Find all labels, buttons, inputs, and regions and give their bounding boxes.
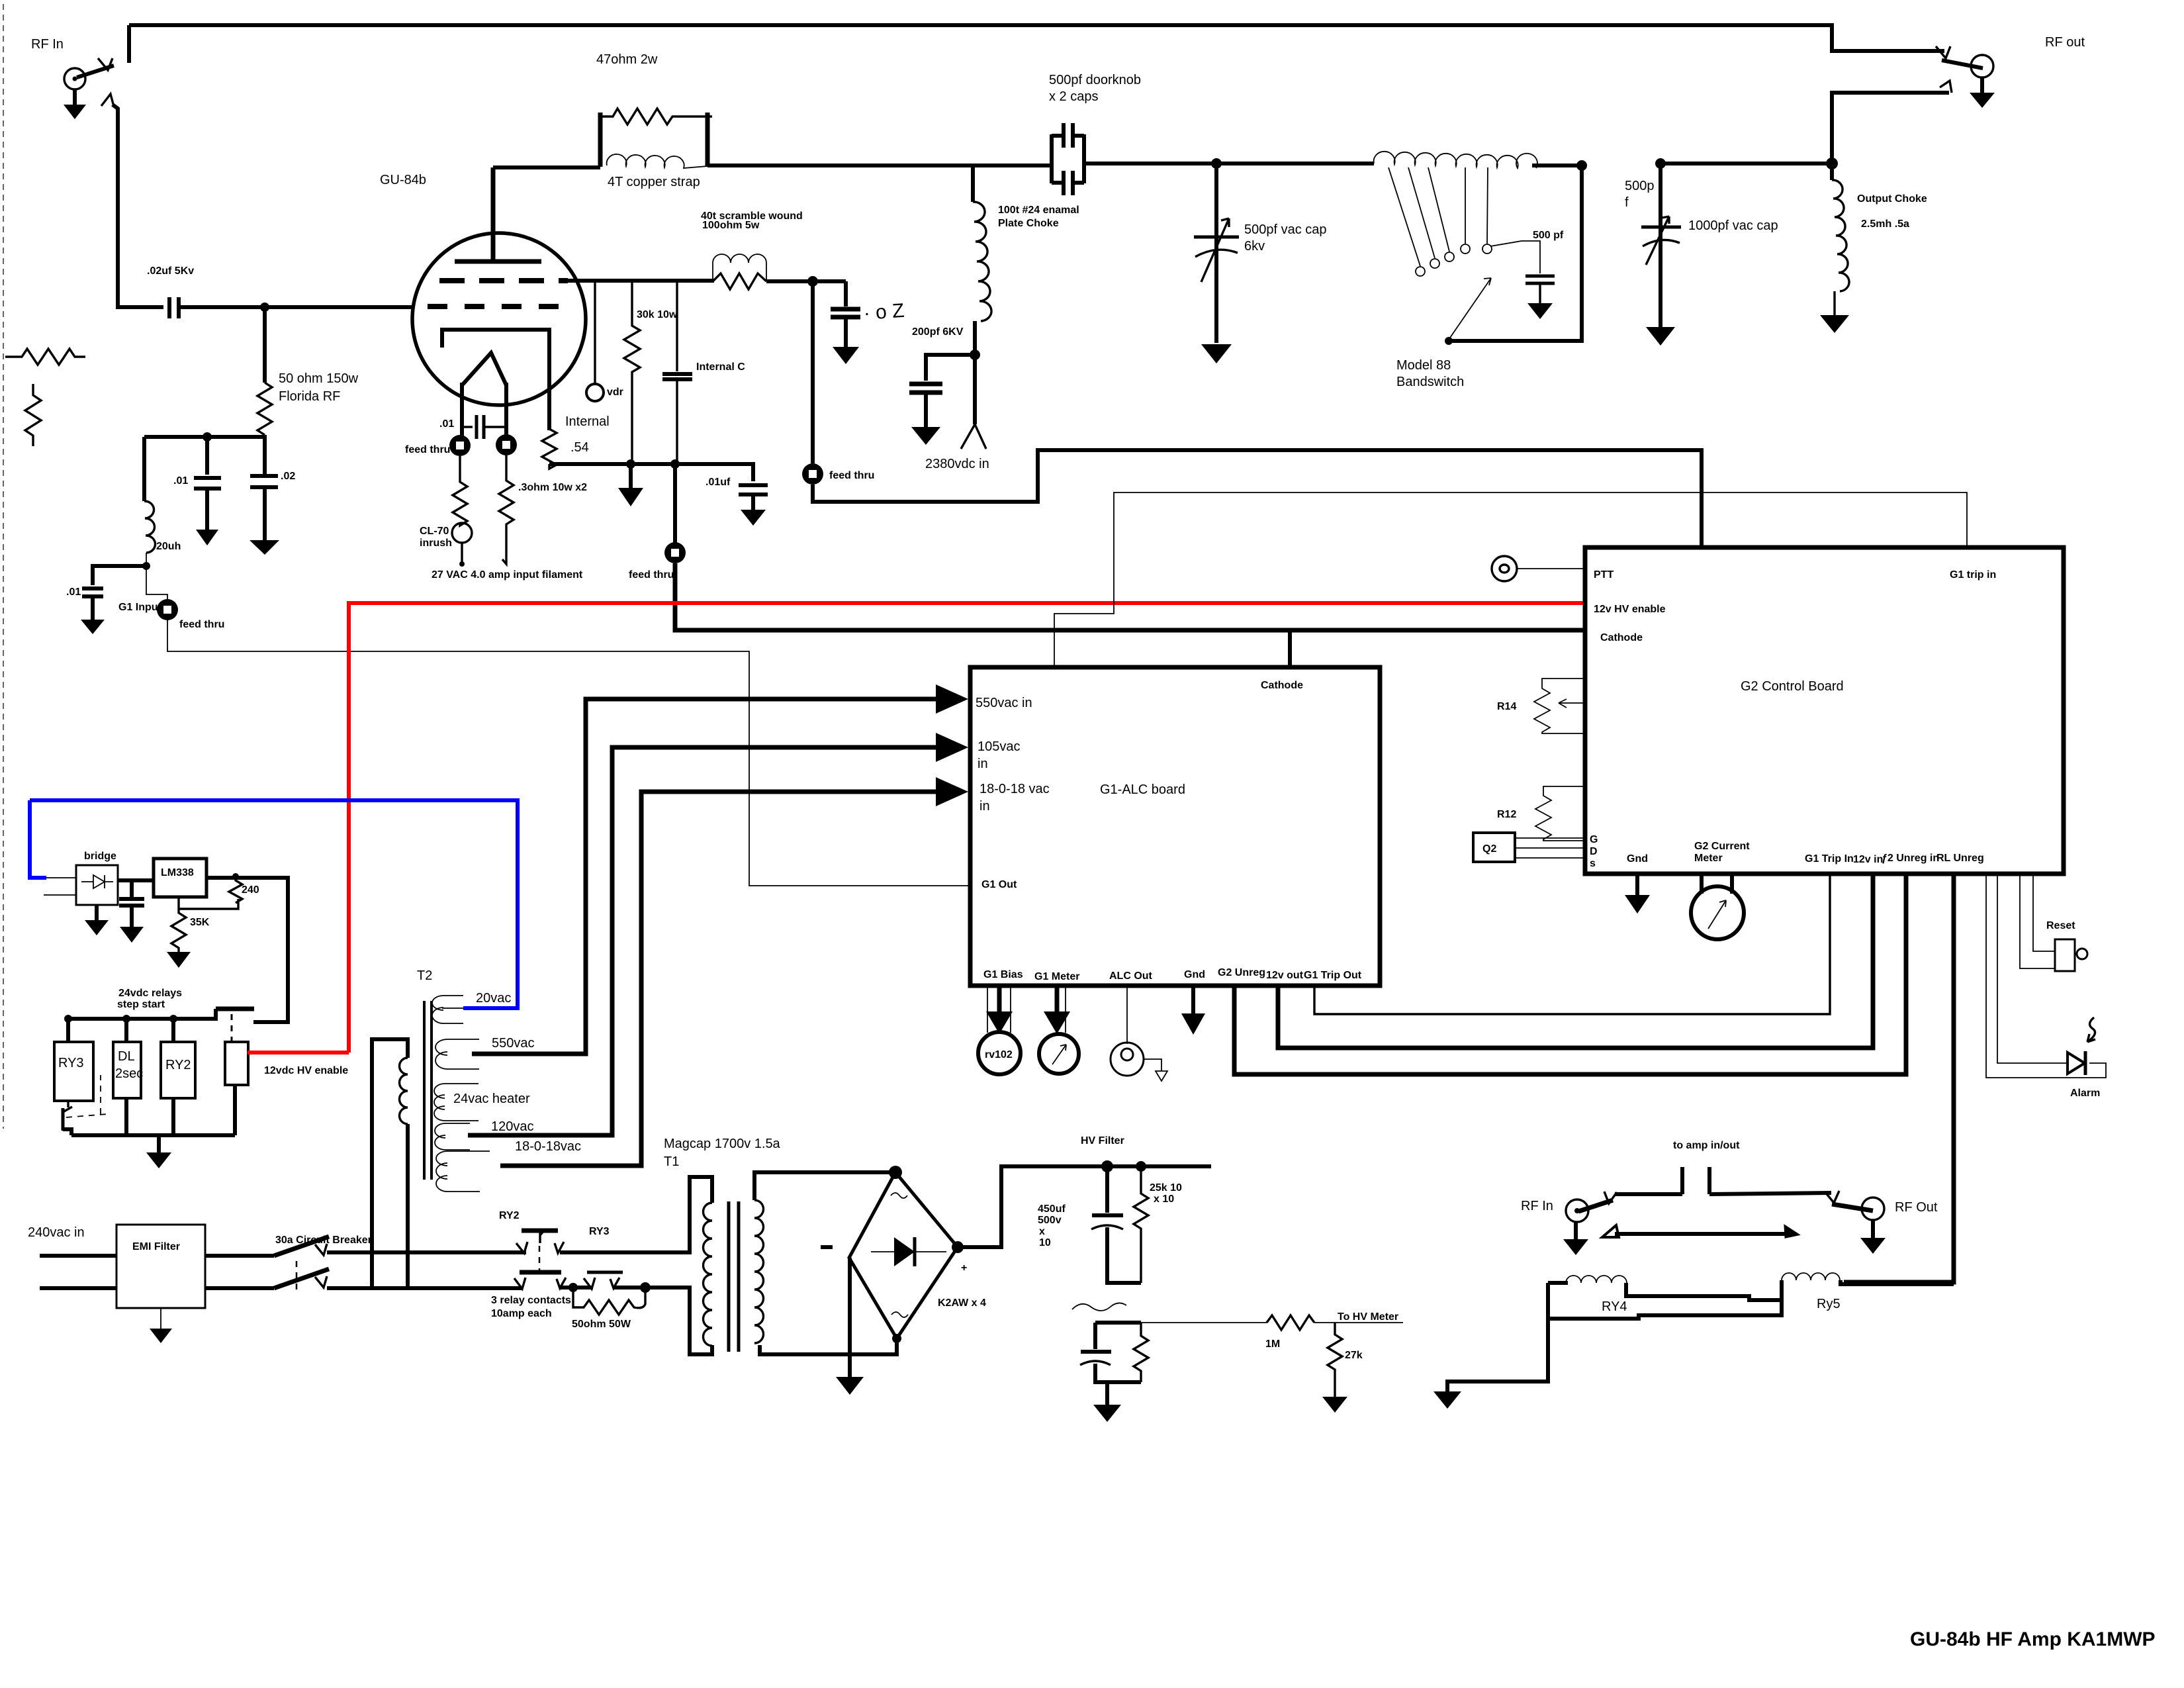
svg-text:PTT: PTT [1594, 569, 1614, 581]
svg-text:T1: T1 [664, 1154, 679, 1169]
wire: second contact down to input cap [113, 105, 163, 307]
wire: doorknob to tank [1084, 162, 1374, 165]
wire: junction down to G1 feed thru [146, 566, 167, 599]
wire: suppressor to .02 node [766, 279, 846, 283]
svg-text:500pf doorknob: 500pf doorknob [1049, 73, 1141, 87]
node bridge right [952, 1241, 964, 1253]
svg-text:.02uf 5Kv: .02uf 5Kv [147, 265, 194, 277]
wire: cap to grid node [179, 305, 414, 309]
wire: junction down to 50 ohm resistor [263, 307, 267, 383]
svg-text:To HV Meter: To HV Meter [1338, 1311, 1398, 1323]
wire 12v HV enable (red) [349, 603, 1585, 1053]
svg-text:12v HV enable: 12v HV enable [1594, 604, 1666, 615]
svg-text:· o Z: · o Z [863, 300, 905, 324]
svg-text:Gnd: Gnd [1627, 853, 1648, 865]
open arrow contact (RF out lower) [1940, 81, 1952, 93]
wire: plate to strap [493, 165, 600, 169]
svg-text:RY4: RY4 [1602, 1299, 1627, 1314]
resistor (spare, vertical) [25, 384, 41, 446]
bridge diode symbol [871, 1251, 946, 1252]
transformer T2 primary [372, 1039, 408, 1288]
breaker gang link [296, 1261, 298, 1292]
svg-text:feed thru: feed thru [629, 569, 674, 581]
wire LM338 out to step start contact [206, 878, 288, 1022]
wire 120vac to ALC 105vac [468, 747, 854, 1135]
svg-text:Bandswitch: Bandswitch [1396, 375, 1464, 389]
inductor 4T copper strap [607, 154, 707, 168]
node 50ohm right [640, 1282, 651, 1293]
transformer T1 primary [690, 1177, 712, 1248]
svg-text:CL-70: CL-70 [420, 526, 449, 537]
page left border dashes [3, 4, 4, 1129]
RF out connector [1971, 55, 1993, 77]
ground HV filter [1105, 1382, 1109, 1405]
wire: screen node down to feed thru [811, 281, 815, 463]
node [142, 562, 150, 570]
svg-text:R12: R12 [1497, 809, 1516, 820]
ground below RF In [73, 89, 77, 105]
svg-text:x 10: x 10 [1154, 1194, 1174, 1205]
wire: second throw line RF out [1832, 93, 1949, 164]
inductor plate choke 100t [971, 165, 975, 202]
transformer T1 secondary [754, 1172, 895, 1200]
svg-text:120vac: 120vac [491, 1119, 534, 1134]
svg-text:30k 10w: 30k 10w [637, 309, 678, 320]
cathode bus [549, 462, 753, 466]
ground arrow cathode bus [629, 464, 633, 488]
svg-text:DL: DL [118, 1049, 135, 1064]
wire: resistor to lower bus [144, 435, 265, 437]
tube GU-84b envelope [412, 233, 586, 405]
svg-text:GU-84b: GU-84b [380, 173, 426, 187]
open arrow at RF out switch top [1936, 46, 1950, 58]
svg-text:500p: 500p [1625, 179, 1655, 193]
svg-text:G1 Input: G1 Input [118, 602, 162, 613]
wire red coil to HV enable (short) [248, 1051, 349, 1055]
svg-text:feed thru: feed thru [405, 444, 450, 455]
node internal C bottom [670, 459, 680, 469]
node 30k bottom [626, 459, 635, 469]
svg-text:100t #24 enamal: 100t #24 enamal [998, 205, 1079, 216]
svg-text:RF Out: RF Out [1895, 1200, 1938, 1215]
capacitor 500pf (bandswitch) [1490, 241, 1540, 273]
wire: junction left to .01 bypass [93, 566, 146, 585]
svg-text:f: f [1625, 195, 1629, 210]
svg-text:Reset: Reset [2046, 920, 2075, 931]
lower bypass line [1615, 1232, 1795, 1236]
relay RY2 [171, 1019, 175, 1042]
node bridge top [889, 1166, 902, 1179]
svg-text:Florida RF: Florida RF [279, 389, 340, 404]
wire 12v out to G2 board [1278, 874, 1873, 1048]
wire: cathode feed thru to boards (thick) [675, 563, 1585, 630]
svg-text:inrush: inrush [420, 538, 452, 549]
relay contact (lower leg 1) [514, 1278, 525, 1289]
svg-text:18-0-18vac: 18-0-18vac [515, 1139, 581, 1154]
strap left bar [598, 113, 603, 167]
svg-text:in: in [979, 799, 990, 814]
svg-text:R14: R14 [1497, 701, 1516, 712]
svg-text:100ohm 5w: 100ohm 5w [702, 220, 760, 231]
svg-text:2sec: 2sec [115, 1066, 143, 1081]
svg-text:rv102: rv102 [985, 1049, 1013, 1060]
svg-text:RY2: RY2 [165, 1058, 191, 1072]
HV bridge rectifier K2AW x 4 [849, 1172, 958, 1338]
svg-text:.01uf: .01uf [705, 477, 731, 488]
svg-text:240: 240 [242, 884, 259, 896]
ground below EMI [160, 1308, 161, 1329]
tube plate [455, 259, 541, 264]
T1 core [727, 1201, 731, 1352]
svg-text:Output Choke: Output Choke [1857, 193, 1927, 205]
svg-text:Meter: Meter [1694, 853, 1723, 864]
node HV cap [1101, 1160, 1113, 1172]
LED Alarm [2068, 1053, 2085, 1074]
wire + resistor CL-70 leg [453, 456, 467, 526]
pin Gnd arrow [1191, 986, 1195, 1019]
svg-text:3 relay contacts: 3 relay contacts [491, 1295, 571, 1306]
parasitic suppressor: inductor 40t + resistor 100ohm [713, 254, 766, 281]
relay contact (lower leg 2) [584, 1278, 595, 1289]
svg-text:G1 Meter: G1 Meter [1034, 971, 1079, 982]
capacitor (24v filter) [130, 880, 134, 897]
strap right bar [705, 113, 710, 167]
svg-text:RF In: RF In [1521, 1199, 1553, 1213]
variable capacitor 1000pf vac (load) [1659, 164, 1662, 327]
svg-text:1000pf vac cap: 1000pf vac cap [1688, 218, 1778, 233]
screen lead right [560, 279, 714, 283]
relay contact RY3 (upper leg) [555, 1242, 564, 1253]
ground below bridge [95, 905, 99, 920]
wire: 20uh to junction [146, 553, 147, 566]
connector ALC Out [1111, 1043, 1144, 1076]
svg-text:2380vdc in: 2380vdc in [925, 457, 989, 471]
relay RY3 [66, 1019, 70, 1042]
node 500pf vac cap tap [1211, 158, 1222, 169]
ground below RF out [1980, 77, 1984, 93]
svg-text:ƒ2 Unreg in: ƒ2 Unreg in [1882, 853, 1939, 864]
wire: strap to plate bus [707, 164, 1054, 167]
breaker upper pole [205, 1254, 274, 1258]
svg-text:GU-84b HF Amp KA1MWP: GU-84b HF Amp KA1MWP [1910, 1628, 2156, 1650]
node plate choke bottom [970, 350, 980, 360]
pin Gnd (G2 board) [1635, 874, 1639, 895]
svg-text:10: 10 [1039, 1237, 1051, 1248]
svg-text:s: s [1590, 858, 1596, 869]
24vdc bus [68, 1009, 216, 1019]
svg-text:Ry5: Ry5 [1817, 1297, 1841, 1311]
svg-text:x: x [1039, 1226, 1045, 1237]
svg-text:bridge: bridge [84, 851, 116, 862]
svg-text:500pf vac cap: 500pf vac cap [1244, 222, 1327, 237]
node grid junction [260, 303, 269, 312]
gang link RY2/RY3 [539, 1246, 541, 1274]
inductor tank coil [1374, 152, 1537, 168]
svg-text:4T copper strap: 4T copper strap [608, 175, 700, 189]
capacitor .02 (screen bypass) [844, 281, 848, 306]
svg-text:EMI Filter: EMI Filter [132, 1241, 180, 1252]
vdr lead [594, 281, 596, 384]
relay coil RY4 [1566, 1276, 1627, 1283]
input arrow 105vac in [851, 745, 951, 750]
svg-text:G2 Current: G2 Current [1694, 841, 1750, 852]
svg-text:20vac: 20vac [476, 991, 511, 1006]
wire RL Unreg to relays [1844, 874, 1954, 1282]
wire Ry5 right to RL Unreg [1841, 1280, 1954, 1284]
pin x3018 wire (alarm feed) [1997, 874, 2066, 1063]
wire RY4 right to Ry5 left [1626, 1280, 1782, 1300]
connector PTT [1492, 556, 1517, 581]
contact 12vdc HV enable (bar pair) [216, 1007, 254, 1011]
svg-text:Gnd: Gnd [1184, 969, 1205, 980]
svg-text:1M: 1M [1265, 1338, 1280, 1350]
open arrow contact (top) [98, 58, 113, 70]
wire lower leg to T1 [645, 1288, 712, 1354]
svg-text:47ohm 2w: 47ohm 2w [596, 52, 658, 67]
wire: cathode into ALC board [1288, 630, 1292, 667]
capacitor .02uf 5Kv (series) [167, 297, 171, 318]
RF In connector J1 [64, 68, 85, 89]
transistor Q2 [1473, 833, 1515, 862]
wire Ry5 left common [1548, 1280, 1782, 1319]
svg-text:27 VAC 4.0 amp input filament: 27 VAC 4.0 amp input filament [432, 569, 583, 581]
CL-70 inrush thermistor [452, 523, 472, 543]
vdr [586, 384, 604, 401]
control grid (dashed) [428, 304, 561, 309]
svg-text:feed thru: feed thru [829, 470, 874, 481]
svg-text:200pf 6KV: 200pf 6KV [912, 326, 964, 338]
svg-text:K2AW x 4: K2AW x 4 [938, 1297, 986, 1309]
feed thru (screen) [802, 463, 823, 485]
capacitor 500pf doorknob x2 [1050, 134, 1054, 183]
tilde continuation mark [1072, 1303, 1126, 1311]
potentiometer R14 [1534, 679, 1585, 733]
cathode bar [442, 330, 549, 430]
svg-text:.01: .01 [173, 475, 188, 487]
top bus RF In to RF out [129, 25, 1944, 51]
node 50ohm left [569, 1283, 578, 1292]
wire ALC trip loop to G2 G1 trip in [1054, 492, 1967, 667]
svg-text:Internal: Internal [565, 414, 610, 429]
svg-text:12v out: 12v out [1266, 970, 1304, 981]
resistor 50ohm 50W bypass [573, 1288, 645, 1315]
svg-text:Magcap 1700v 1.5a: Magcap 1700v 1.5a [664, 1137, 781, 1151]
svg-text:+: + [961, 1262, 967, 1274]
EMI Filter [116, 1225, 205, 1308]
svg-text:G1 Trip Out: G1 Trip Out [1304, 970, 1362, 981]
svg-text:Internal C: Internal C [696, 361, 745, 373]
ground below RF Out bottom [1871, 1220, 1875, 1238]
inductor 20uh [144, 501, 156, 553]
resistor R12 [1535, 786, 1585, 841]
svg-text:500 pf: 500 pf [1533, 230, 1564, 241]
plate lead up [491, 167, 496, 261]
svg-text:G1 Trip In: G1 Trip In [1805, 853, 1854, 865]
svg-text:G2 Control Board: G2 Control Board [1741, 679, 1844, 694]
wire G1 Trip Out to G2 board [1314, 874, 1830, 1014]
bridge minus to ground [848, 1258, 852, 1377]
svg-text:RY2: RY2 [499, 1210, 520, 1221]
relay coil Ry5 [1782, 1273, 1840, 1280]
ground below RF In bottom [1574, 1222, 1578, 1239]
node output choke tap [1826, 158, 1838, 169]
T2 core [423, 1001, 426, 1180]
pin ALC Out wire [1126, 986, 1128, 1044]
pin G1 Bias wires [987, 986, 988, 1033]
svg-text:feed thru: feed thru [179, 619, 224, 630]
feed thru (heater right) [496, 434, 517, 455]
board G1-ALC [970, 667, 1380, 986]
wire 20vac (blue) [30, 800, 518, 1008]
bridge rectifier (24v supply) [76, 865, 118, 905]
bandswitch wiper arm [1449, 278, 1491, 340]
svg-text:550vac: 550vac [492, 1036, 535, 1051]
svg-text:x 2 caps: x 2 caps [1049, 89, 1098, 104]
connector RF In (bottom) [1566, 1199, 1588, 1222]
timer DL 2sec [124, 1019, 128, 1042]
board G2 Control Board [1585, 547, 2064, 874]
wire G2 Unreg to G2 board [1234, 874, 1906, 1074]
wire 240vac bottom leg [40, 1286, 116, 1290]
relay bottom bus to ground [71, 1085, 235, 1135]
input arrow 18-0-18 vac in [878, 790, 951, 794]
svg-text:6kv: 6kv [1244, 239, 1265, 254]
svg-text:50 ohm 150w: 50 ohm 150w [279, 371, 359, 386]
svg-text:G: G [1590, 834, 1598, 845]
svg-text:RL Unreg: RL Unreg [1936, 853, 1984, 864]
node [203, 432, 212, 442]
svg-text:.01: .01 [66, 586, 81, 598]
wire 18-0-18 to ALC [500, 792, 880, 1166]
capacitor (HV filter 2nd) [1095, 1321, 1141, 1325]
svg-text:to amp in/out: to amp in/out [1673, 1140, 1740, 1151]
open arrow contact (second throw) [101, 94, 114, 107]
svg-text:Cathode: Cathode [1261, 680, 1303, 691]
feed thru (heater left) [449, 435, 471, 456]
svg-text:12vdc HV enable: 12vdc HV enable [264, 1065, 348, 1076]
svg-text:25k 10: 25k 10 [1150, 1182, 1182, 1194]
wire bridge to LM338 [118, 878, 154, 882]
svg-text:Model 88: Model 88 [1396, 358, 1451, 373]
feed thru (G1 input) [157, 599, 178, 620]
wire tank bus to output choke node [1661, 162, 1832, 165]
meter G2 Current [1702, 874, 1732, 894]
wire 2380vdc in [973, 355, 977, 424]
svg-text:D: D [1590, 846, 1598, 857]
resistor 47ohm 2w [600, 109, 712, 124]
svg-text:20uh: 20uh [156, 541, 181, 552]
tap terminals [1416, 267, 1425, 276]
svg-text:vdr: vdr [607, 387, 623, 398]
capacitor 200pf 6KV [926, 355, 975, 381]
wire LM338 adj network [179, 897, 238, 909]
bandswitch taps [1388, 167, 1420, 266]
wire 550vac to ALC [472, 699, 827, 1054]
switch arm RF In [77, 66, 114, 77]
node .02 [807, 276, 818, 287]
svg-text:Plate Choke: Plate Choke [998, 218, 1059, 229]
wire 240vac top leg [40, 1254, 116, 1258]
upper contact line right [1709, 1193, 1831, 1194]
svg-text:Cathode: Cathode [1600, 632, 1643, 643]
breaker lower pole [205, 1286, 274, 1290]
meter G1 Meter [1039, 1034, 1079, 1074]
wire: G1 feed thru to ALC G1 Out (long thin) [167, 620, 970, 886]
svg-text:LM338: LM338 [161, 867, 194, 878]
svg-text:550vac in: 550vac in [976, 696, 1032, 710]
screen grid (dashed) [439, 278, 568, 283]
svg-text:G1 trip in: G1 trip in [1950, 569, 1996, 581]
wire: cathode bus to .01uf [675, 464, 753, 481]
pin x3000 wire (alarm return) [1986, 874, 2106, 1078]
wire: screen feed to G2 board (2380 routing) [813, 450, 1702, 547]
svg-text:G1-ALC board: G1-ALC board [1100, 782, 1185, 797]
svg-text:105vac: 105vac [978, 739, 1021, 754]
wire: bus corner down to 20uh [142, 437, 146, 501]
svg-text:step start: step start [117, 999, 165, 1010]
svg-text:.3ohm 10w x2: .3ohm 10w x2 [518, 482, 587, 493]
switch arm RF out [1942, 60, 1983, 68]
wires Reset [2020, 874, 2055, 968]
wire: internal C line down to feed thru [673, 464, 677, 543]
resistor (spare, horizontal) [5, 349, 85, 365]
svg-text:.02: .02 [281, 471, 295, 482]
svg-text:450uf: 450uf [1038, 1203, 1066, 1215]
svg-text:.54: .54 [570, 440, 589, 455]
svg-text:24vac heater: 24vac heater [453, 1092, 530, 1106]
svg-text:27k: 27k [1345, 1350, 1363, 1361]
node 1000pf tap [1655, 158, 1666, 169]
heater filament [462, 353, 506, 385]
resistor (HV filter 2nd) [1134, 1323, 1148, 1382]
svg-text:Alarm: Alarm [2070, 1088, 2100, 1099]
input arrow 550vac in [825, 697, 951, 702]
svg-text:RY3: RY3 [58, 1056, 84, 1070]
bridge ~ marks [891, 1193, 907, 1198]
svg-text:24vdc relays: 24vdc relays [118, 988, 182, 999]
svg-text:240vac in: 240vac in [28, 1225, 85, 1240]
variable capacitor 500pf vac (tune) [1214, 164, 1218, 343]
svg-text:ALC Out: ALC Out [1109, 970, 1153, 982]
pot rv102 [978, 1032, 1021, 1074]
svg-text:50ohm 50W: 50ohm 50W [572, 1319, 631, 1330]
wire: top bus corner down to RF In switch [127, 25, 131, 63]
svg-text:35K: 35K [190, 917, 210, 928]
wire to 1M [1141, 1322, 1267, 1323]
svg-text:10amp each: 10amp each [491, 1308, 552, 1319]
feed thru (cathode) [664, 542, 686, 563]
svg-text:RY3: RY3 [589, 1226, 610, 1237]
switch arm RF Out bottom [1832, 1204, 1873, 1211]
svg-text:HV Filter: HV Filter [1081, 1135, 1124, 1147]
connector RF Out (bottom) [1862, 1197, 1884, 1220]
svg-text:2.5mh .5a: 2.5mh .5a [1861, 218, 1909, 230]
svg-text:RF In: RF In [31, 37, 64, 52]
svg-text:G2 Unreg: G2 Unreg [1218, 967, 1265, 978]
RY3 contact (latch, dashed) [67, 1101, 69, 1107]
capacitor 450uf [1105, 1166, 1109, 1213]
bridge - + [821, 1245, 833, 1249]
svg-text:G1 Bias: G1 Bias [983, 969, 1023, 980]
svg-text:RF out: RF out [2045, 35, 2085, 50]
switch arm RF In bottom [1578, 1200, 1613, 1211]
wire bridge + to HV filter [958, 1166, 1211, 1247]
resistor 50 ohm 150w [257, 383, 272, 435]
svg-text:Q2: Q2 [1482, 843, 1496, 855]
svg-text:.01: .01 [439, 418, 454, 430]
upper contact line left [1604, 1192, 1617, 1203]
ground (relay common) [1433, 1391, 1461, 1409]
